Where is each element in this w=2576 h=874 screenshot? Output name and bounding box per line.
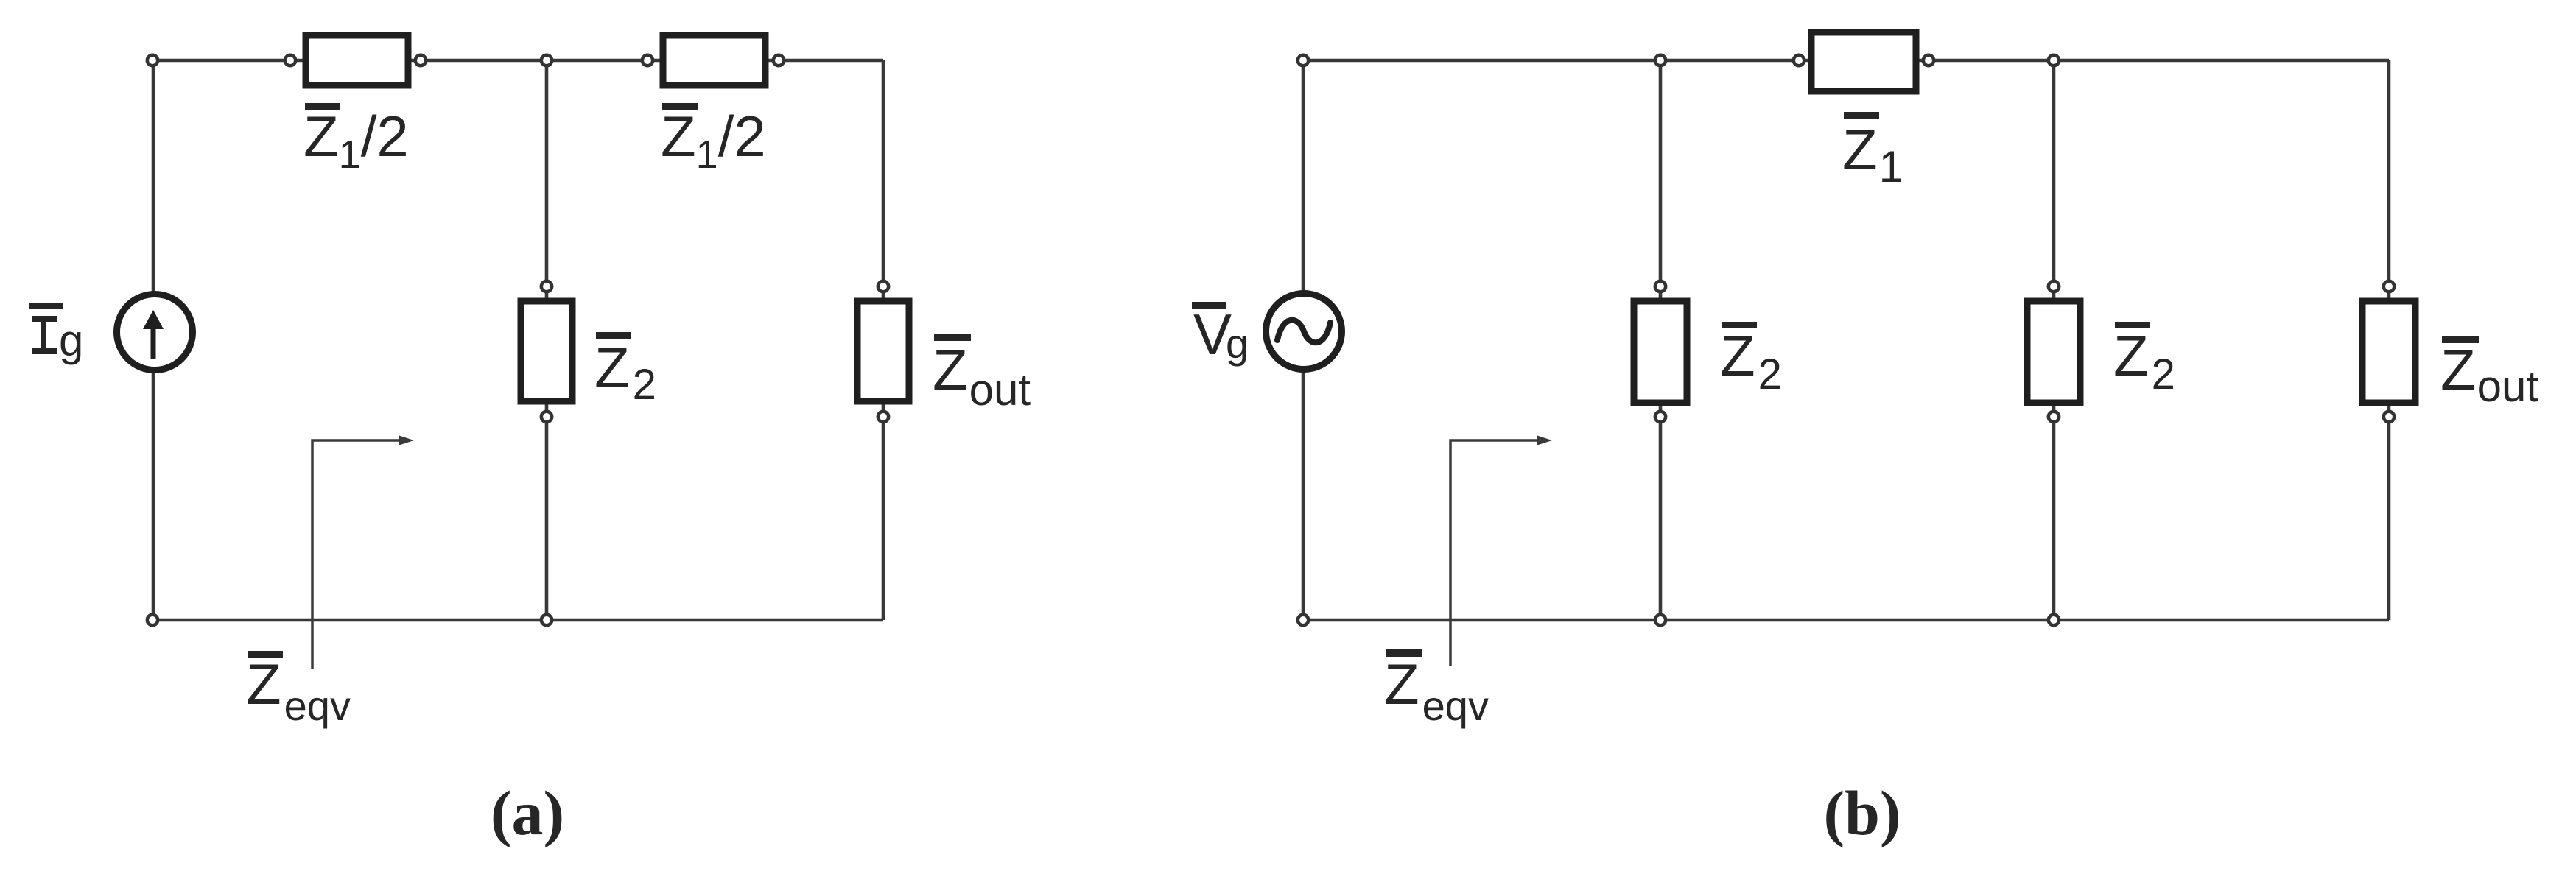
svg-text:(a): (a) (491, 778, 564, 848)
svg-text:g: g (59, 316, 83, 365)
svg-text:(b): (b) (1823, 778, 1901, 848)
